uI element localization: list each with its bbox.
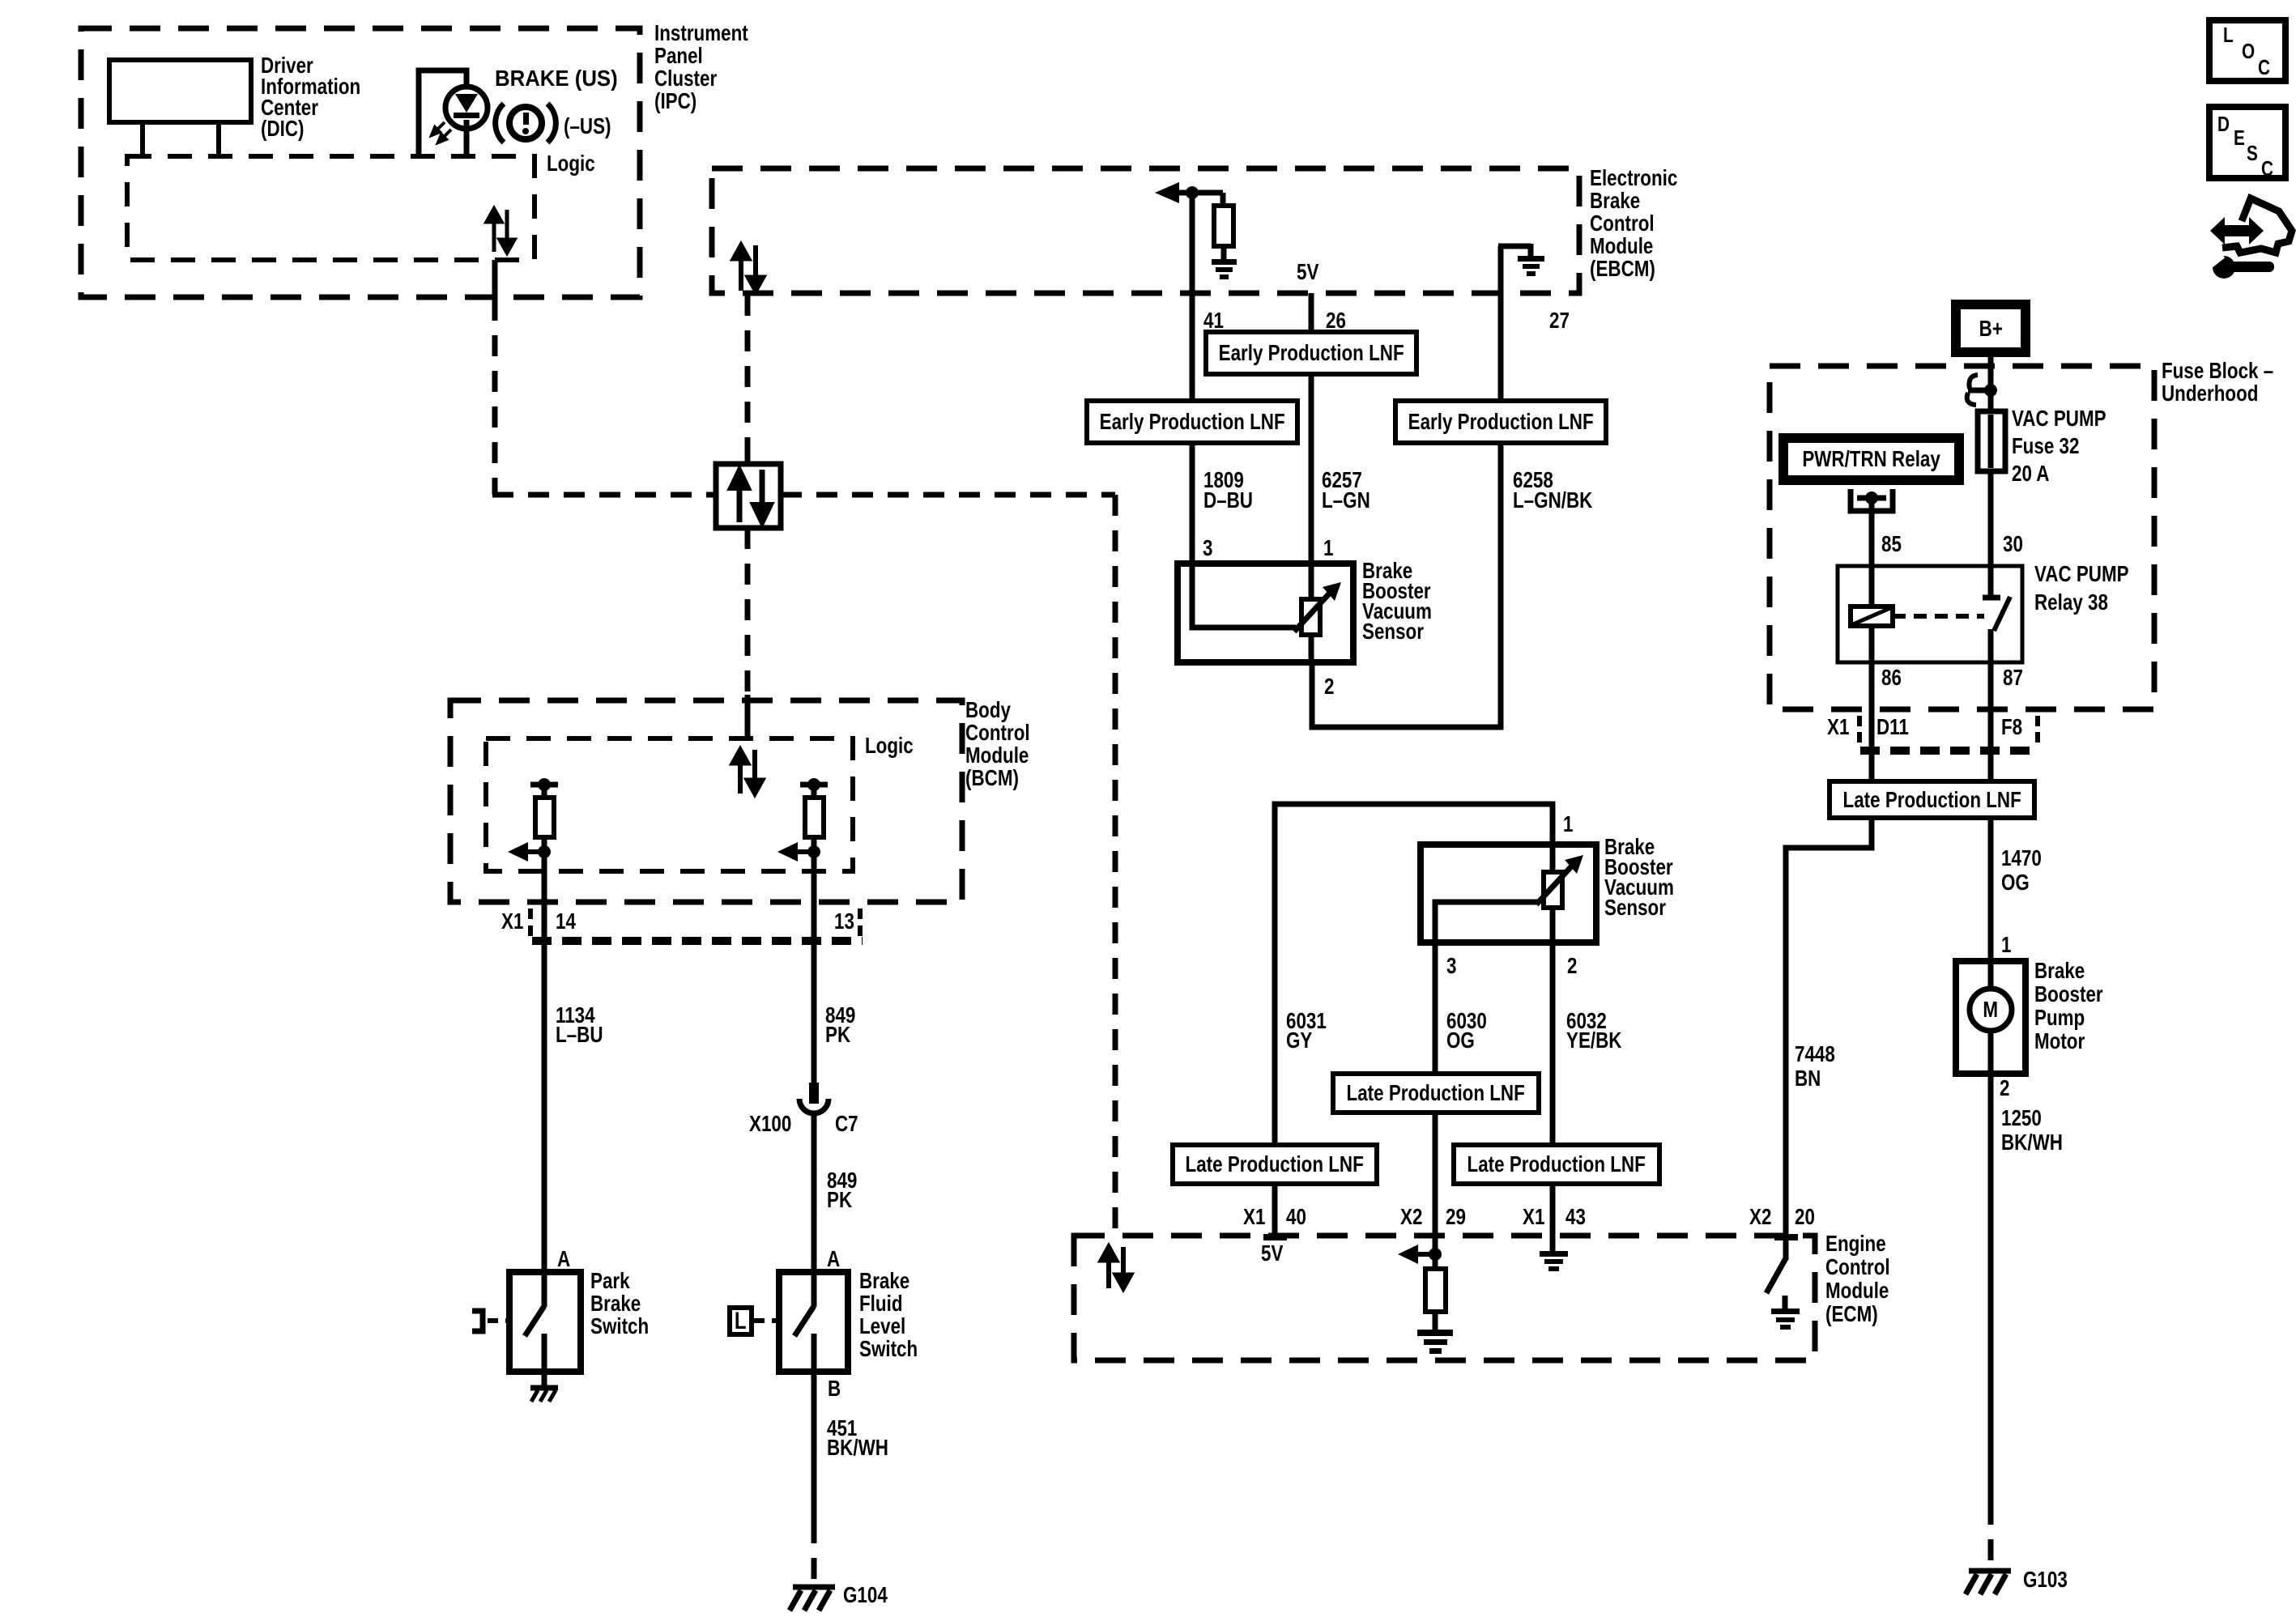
wire 1250 BK/WH dashed to ground [1988,1504,1994,1566]
label: VAC PUMP Relay 38 [2034,560,2129,616]
battery feed B+ terminal box [1956,304,2026,352]
wire label 849 PK (upper) [825,1006,855,1045]
serial data arrows in BCM logic [732,749,763,794]
potentiometer wiper arrow (early sensor) [1294,590,1332,632]
Late Production LNF box (6031) [1173,1145,1377,1184]
pin 40 [1286,1206,1306,1228]
wire 6030 OG (late sensor pin 3 to ECM X2-29) [1433,943,1438,1254]
sensor pin1 internal wire [1309,564,1314,601]
label: Early Production LNF (pin 41) [1087,401,1297,443]
logic box inside IPC [127,156,535,260]
relay VAC PUMP Relay 38 box [1838,566,2022,662]
wire: B+ to fuse [1988,352,1994,411]
connector X1 bracket (fuse block D11 F8) [1857,716,2040,743]
signal arrow left (ECM X2-29) [1416,1252,1435,1257]
label: Engine Control Module (ECM) [1825,1232,1890,1326]
label: Electronic Brake Control Module (EBCM) [1590,167,1677,280]
brake warning lamp icon ((!)) [496,104,556,143]
potentiometer element (late sensor) [1544,872,1562,908]
pin 1 (early sensor) [1323,537,1333,560]
pin A (park brake switch) [557,1248,570,1270]
wire label 1809 D-BU [1203,470,1253,510]
wire 1134 L-BU (BCM pin 14 down to park brake switch) [542,852,547,1272]
ground G104 [790,1587,835,1611]
pin 85 [1881,533,1902,555]
wire 451 BK/WH dashed to ground [811,1522,817,1582]
label: Late Production LNF (6030) [1333,1074,1539,1113]
connector X100 C7 (in-line) [809,1083,819,1104]
pin 87 [2003,666,2023,689]
terminal tick (ECM X2-20) [1774,1234,1798,1240]
wire: serial data (dashed right toward ECM) [781,492,1115,498]
junction dot [538,845,551,858]
wire 1250 BK/WH [1988,1074,1994,1504]
Early Production LNF box (pin 26) [1206,332,1416,374]
label: Brake Booster Vacuum Sensor (late) [1604,836,1674,917]
connector label X1 (fuse block) [1827,716,1849,738]
resistor R in BCM (left pull-up) [542,785,547,798]
wire: fuse to relay pin 30 [1988,471,1994,597]
connector label C7 [835,1113,858,1135]
connector label X1 (ECM 40) [1243,1206,1265,1228]
label: Late Production LNF (6031) [1173,1145,1377,1184]
earth ground (EBCM pin 27 internal) [1498,246,1504,295]
pin 27 [1549,309,1570,332]
LED circle [445,87,488,129]
wire: DIC left leg [140,122,145,156]
icon: DESC box [2209,107,2285,178]
fluid switch lower contact B [811,1334,817,1372]
module box: Engine Control Module (ECM) [1074,1236,1815,1360]
pin 13 [834,910,854,933]
ground label G103 [2023,1568,2068,1591]
resistor R in BCM (right pull-up) [811,785,817,798]
wire: stub into BCM logic [745,695,751,738]
pin A (fluid switch) [827,1248,840,1270]
wire label 6258 L-GN/BK [1513,470,1592,510]
park brake actuator bracket [472,1311,483,1331]
relay switch blade [1994,597,2010,631]
ground G103 [1966,1571,2011,1594]
bus tap symbol [1968,388,1991,394]
junction dot [807,778,820,791]
signal arrow (EBCM pin 41 node) [1155,182,1179,203]
junction dot [538,778,551,791]
connector label X2 (ECM 29) [1400,1206,1422,1228]
motor M circle [1988,961,1994,989]
pin 2 (pump motor) [2000,1077,2009,1100]
serial data arrows in junction box [731,470,771,523]
PWR/TRN relay output terminal bracket [1851,489,1893,511]
park brake switch box [509,1272,581,1372]
wire label 7448 BN [1795,1042,1835,1091]
wire: serial data (dashed right to junction) [492,492,716,498]
label: Fuse Block - Underhood [2162,360,2273,405]
label: PWR/TRN Relay [1783,438,1959,480]
brake booster pump motor box [1956,961,2026,1074]
wire 6032 YE/BK (late sensor pin 2 to ECM X1-43) [1550,943,1556,1253]
pin 2 (early sensor) [1324,675,1334,698]
pin 41 [1203,309,1224,332]
dashed actuator link (park) [488,1318,509,1323]
icon letters DESC [2217,113,2230,135]
fluid switch blade [794,1306,814,1336]
wire: serial data dashed down to BCM [745,528,751,696]
serial data arrows in ECM [1101,1246,1131,1289]
label: Instrument Panel Cluster (IPC) [654,22,748,113]
terminal F8 [2001,716,2022,738]
earth ground (ECM X1-43) [1540,1251,1568,1271]
module box: Fuse Block - Underhood [1770,366,2154,709]
pin 3 (late sensor) [1446,955,1456,977]
wire label 451 BK/WH [827,1419,888,1457]
signal arrow left (BCM left) [525,849,544,854]
junction dot (ECM X2-29 node) [1429,1248,1442,1261]
label: Brake Booster Pump Motor [2034,959,2103,1053]
wire: EBCM serial data (dashed down to junction) [745,295,751,450]
sensor internal: pin3 wire and wiper feed [1192,564,1296,628]
serial data junction box [716,464,781,528]
wire 849 PK (X100 to brake fluid level switch) [811,1113,817,1272]
fluid switch contact A wire [811,1269,817,1307]
junction dot [1865,491,1878,504]
wire: EBCM pin 41 to sensor pin 3 (1809 D-BU) [1190,193,1195,567]
relay fixed contact tick [1983,595,2000,601]
logic box inside BCM [486,738,853,871]
wire: relay pin 86 [1869,662,1875,785]
pin B (fluid switch) [828,1377,841,1400]
Late Production LNF box (6032) [1454,1145,1659,1184]
label: Brake Fluid Level Switch [859,1270,918,1360]
pin 86 [1881,666,1902,689]
potentiometer wiper arrow (late sensor) [1536,863,1574,904]
brake booster vacuum sensor (early) box [1178,564,1353,662]
pin 43 [1565,1206,1586,1228]
pin 3 (early sensor) [1203,537,1212,560]
wire: DIC right leg [216,122,221,156]
label: 5V (ECM) [1261,1242,1283,1265]
serial data arrows in IPC logic [487,209,514,253]
ground label G104 [843,1584,888,1606]
potentiometer element (early sensor) [1301,599,1320,635]
label: Early Production LNF (pin 27) [1395,401,1606,443]
wire: IPC serial data (dashed down) [492,300,498,495]
label: Late Production LNF (6032) [1454,1145,1659,1184]
wire 1470 OG (F8 to pump motor pin 1) [1988,818,1994,964]
relay dashed link [1893,614,1984,619]
wire: LED cathode to logic box [464,120,470,156]
icon: LOC box [2209,20,2285,81]
pull-up supply bar right (BCM) [800,782,828,788]
earth ground (ECM switch) [1771,1308,1800,1330]
label: B+ [1956,304,2026,352]
wire 849 PK (BCM pin 13 down to X100) [811,852,817,1085]
brake fluid level switch box [779,1272,848,1372]
resistor R in ECM [1433,1254,1438,1269]
connector label X2 (ECM 20) [1749,1206,1771,1228]
connector label X1 (ECM 43) [1523,1206,1544,1228]
Early Production LNF box (pin 41) [1087,401,1297,443]
relay coil [1869,566,1875,606]
wire 7448 BN (D11 to ECM X2-20) [1786,818,1872,1237]
terminal D11 [1876,716,1909,738]
park brake switch lower contact [542,1334,547,1385]
wire label 1470 OG [2001,846,2042,895]
pin 20 [1795,1206,1815,1228]
resistor R in EBCM [1220,193,1226,206]
pin 2 (late sensor) [1567,955,1577,977]
park brake switch blade [525,1306,544,1336]
junction dot [807,845,820,858]
label: VAC PUMP Fuse 32 20 A [2012,405,2106,487]
junction dot (bus tap) [1984,384,1997,397]
label: L (level sensor) [730,1308,752,1334]
icon letters LOC [2223,23,2234,46]
label: M (motor) [1970,989,2012,1031]
PWR/TRN Relay label box [1783,438,1959,480]
pin 14 [556,910,576,933]
wire 451 BK/WH [811,1372,817,1522]
switch blade in ECM (vac pump control) [1783,1237,1789,1260]
wire label 1250 BK/WH [2001,1106,2063,1155]
earth ground (EBCM resistor) [1212,259,1237,279]
Late Production LNF box (6030) [1333,1074,1539,1113]
wire: serial data dashed down to ECM [1113,495,1118,1232]
label: Driver Information Center (DIC) [261,55,360,139]
label: Logic (BCM) [865,734,914,757]
wire: EBCM pin 26 5V to sensor pin 1 (6257 L-GN) [1309,293,1314,567]
park brake switch contact A wire [542,1269,547,1307]
wire label 6257 L-GN [1322,470,1370,510]
label: 5V (EBCM) [1297,261,1318,283]
LED diode triangle [455,94,478,113]
Driver Information Center (DIC) box [109,60,251,122]
5V terminal tick (ECM X1-40) [1263,1234,1287,1240]
module box: Electronic Brake Control Module (EBCM) [712,168,1579,293]
wire label 6031 GY [1286,1011,1327,1050]
pin 30 [2003,533,2023,555]
connector label X1 (BCM) [501,910,523,933]
wire label 1134 L-BU [556,1006,603,1045]
connector label X100 [749,1113,791,1135]
wire: stub into junction box [745,448,751,464]
label: Park Brake Switch [590,1270,649,1338]
pull-up supply bar left (BCM) [530,782,558,788]
wire label 6030 OG [1446,1011,1487,1050]
pin 29 [1446,1206,1466,1228]
sensor pin2 internal wire [1309,633,1314,661]
wire: IPC serial data out (solid) [492,260,498,300]
label: (-US) [564,115,611,138]
wire: late sensor 5V loop (top horizontal) [1275,804,1553,1236]
Late Production LNF box (relay outputs) [1830,781,2034,818]
LED cathode bar [454,113,479,118]
Early Production LNF box (pin 27) [1395,401,1606,443]
serial data arrows in EBCM [733,245,764,291]
connector X1 bracket (BCM) [528,908,863,936]
junction dot [1186,186,1199,199]
pin 1 (late sensor) [1563,813,1573,836]
dashed actuator link (fluid) [754,1318,779,1323]
wire label 849 PK (lower) [827,1171,857,1210]
signal arrow left (BCM right) [794,849,814,854]
label: BRAKE (US) [495,67,618,90]
module box: Instrument Panel Cluster (IPC) [81,28,640,297]
module box: Body Control Module (BCM) [450,700,962,902]
pin 26 [1326,309,1346,332]
chassis ground (park brake switch) [530,1388,558,1402]
label: Brake Booster Vacuum Sensor (early) [1362,560,1432,641]
fuse VAC PUMP Fuse 32 20 A [1978,411,2005,471]
wire: relay pin 87 [1988,629,1994,785]
label: Body Control Module (BCM) [965,699,1030,789]
brake booster vacuum sensor (late) box [1421,845,1596,943]
pin 1 (pump motor) [2001,934,2011,956]
LED emission arrows [432,122,451,143]
earth ground (ECM resistor) [1417,1330,1453,1354]
wire: EBCM pin 27 to sensor pin 2 (6258 L-GN/BK) [1312,295,1501,727]
LED indicator bracket wire (BRAKE lamp) [419,70,466,156]
icon: data link connector (car + arrow + wrench) [2207,198,2292,279]
wire label 6032 YE/BK [1566,1011,1621,1050]
late sensor pin2 internal wire [1550,906,1556,943]
wire: PWR/TRN relay to relay pin 85 [1869,498,1875,566]
level sensor L box [730,1308,752,1334]
late sensor internal: pin3 wiper feed [1435,902,1538,943]
label: Logic (IPC) [547,152,595,175]
label: Late Production LNF (relay outputs) [1830,781,2034,818]
label: Early Production LNF (pin 26) [1206,332,1416,374]
